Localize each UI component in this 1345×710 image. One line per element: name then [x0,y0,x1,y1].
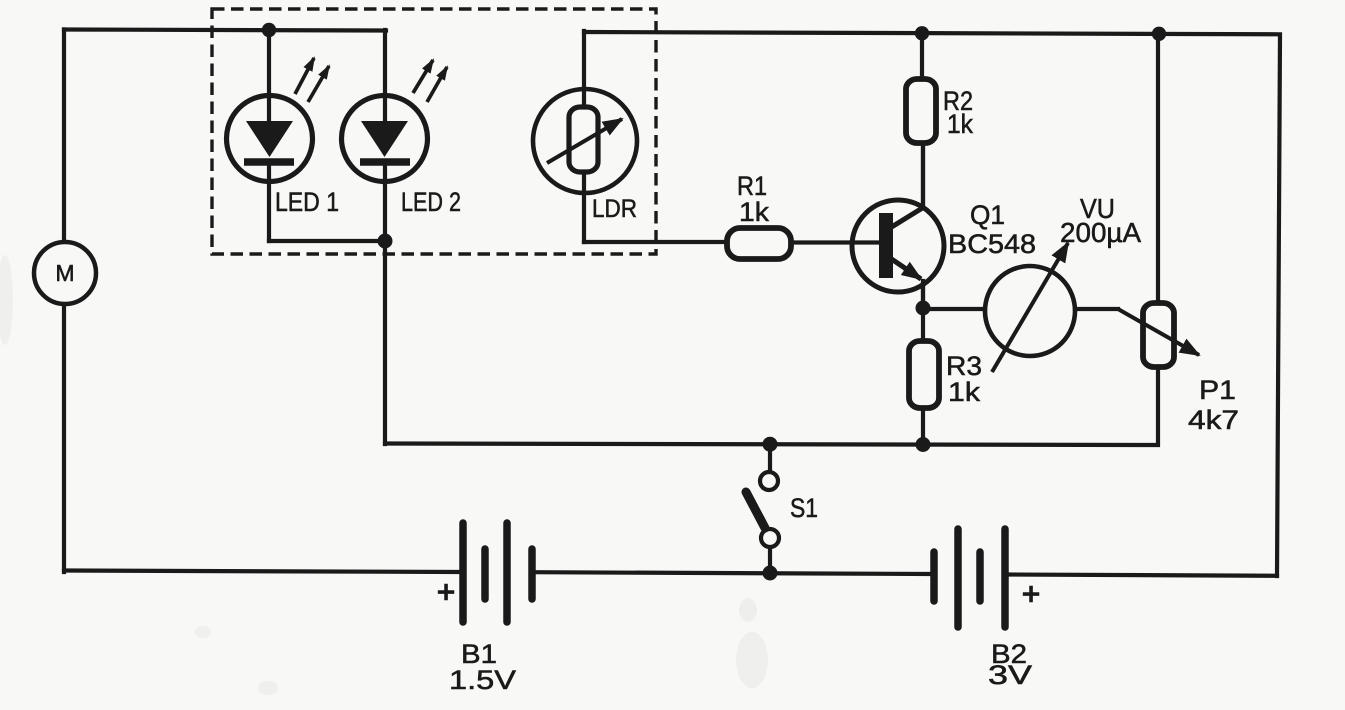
svg-text:LDR: LDR [592,195,637,223]
svg-text:1k: 1k [948,377,981,407]
svg-text:3V: 3V [988,660,1032,690]
svg-text:M: M [55,260,74,286]
svg-text:1.5V: 1.5V [449,665,516,695]
svg-text:Q1: Q1 [970,200,1005,230]
svg-text:1k: 1k [947,109,973,139]
svg-text:P1: P1 [1199,375,1236,405]
svg-text:LED 2: LED 2 [401,187,461,217]
svg-text:LED 1: LED 1 [275,187,339,217]
svg-text:BC548: BC548 [948,229,1036,259]
svg-text:+: + [1022,576,1040,611]
svg-text:S1: S1 [790,493,818,523]
svg-text:+: + [437,574,455,609]
svg-text:1k: 1k [739,197,770,227]
svg-text:200µA: 200µA [1060,217,1141,248]
svg-text:4k7: 4k7 [1188,405,1239,435]
